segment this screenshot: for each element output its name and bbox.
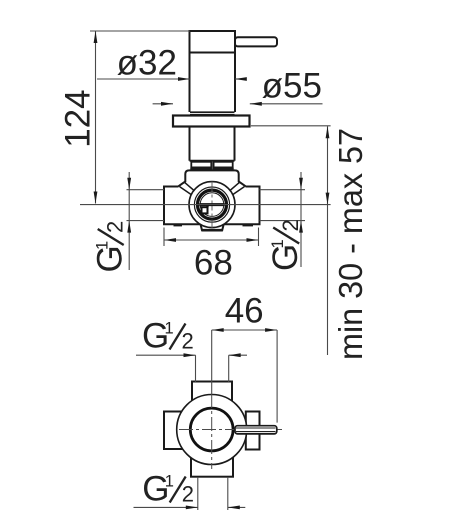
svg-text:ø55: ø55 bbox=[262, 67, 322, 106]
svg-text:46: 46 bbox=[225, 292, 264, 331]
svg-text:min 30 - max 57: min 30 - max 57 bbox=[332, 128, 369, 360]
svg-text:ø32: ø32 bbox=[117, 44, 177, 83]
svg-text:124: 124 bbox=[58, 89, 97, 147]
svg-text:68: 68 bbox=[194, 244, 233, 283]
